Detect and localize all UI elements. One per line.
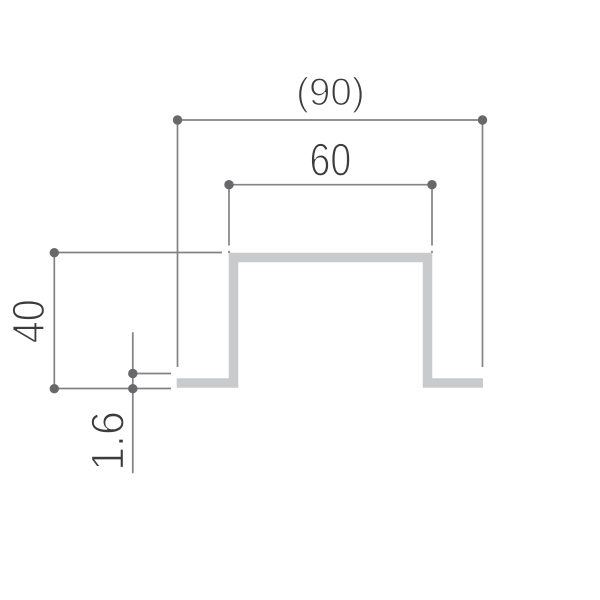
dimension 40 dots — [50, 248, 59, 393]
dimension 1.6 label — [82, 411, 134, 471]
dimension 60 label — [310, 134, 352, 186]
dimension 1.6 dots — [128, 369, 137, 394]
dimension 1.6 line — [133, 332, 171, 473]
dimension (90) label — [296, 71, 365, 114]
dimension (90) line — [178, 120, 483, 367]
svg-text:1.6: 1.6 — [82, 411, 134, 471]
dimension 60 line — [229, 185, 432, 253]
hat channel profile — [177, 258, 483, 384]
dimension (90) dots — [173, 115, 487, 124]
dimension 40 line — [54, 253, 222, 389]
svg-text:60: 60 — [310, 134, 352, 186]
svg-text:40: 40 — [3, 299, 54, 343]
svg-text:(90): (90) — [296, 71, 365, 114]
dimension 60 dots — [224, 180, 436, 189]
dimension 40 label — [3, 299, 54, 343]
